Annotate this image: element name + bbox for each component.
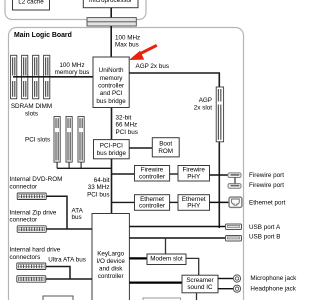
- svg-text:bus bridge: bus bridge: [96, 98, 126, 105]
- svg-text:Headphone jack: Headphone jack: [250, 286, 296, 293]
- wire max bus lower: [110, 26, 112, 57]
- svg-text:32-bit: 32-bit: [116, 114, 132, 121]
- svg-text:controller: controller: [98, 273, 124, 280]
- svg-text:connector: connector: [10, 217, 38, 224]
- internal Zip drive connector icon: [17, 226, 46, 233]
- svg-text:Boot: Boot: [159, 140, 172, 147]
- Firewire port icon A: [228, 173, 241, 178]
- svg-text:UniNorth: UniNorth: [99, 67, 124, 74]
- svg-text:controller: controller: [98, 83, 124, 90]
- wire DVD connector to ATA bus: [46, 196, 67, 229]
- svg-text:AGP 2x bus: AGP 2x bus: [136, 63, 170, 70]
- svg-text:connector: connector: [10, 183, 38, 190]
- 100 MHz Max bus label: [115, 34, 140, 48]
- wire AGP 2x bus: [129, 73, 219, 228]
- svg-text:USB port A: USB port A: [249, 224, 281, 231]
- svg-text:Internal hard drive: Internal hard drive: [10, 246, 61, 253]
- svg-text:sound IC: sound IC: [187, 284, 213, 291]
- headphone jack icon: [233, 285, 240, 292]
- SDRAM DIMM slot 1: [11, 55, 17, 99]
- svg-text:controller: controller: [139, 173, 165, 180]
- svg-text:controller: controller: [139, 203, 165, 210]
- bottom-left box (cut off): [43, 296, 73, 300]
- wire Zip connector to KeyLargo (ATA bus): [46, 228, 92, 230]
- svg-text:Internal Zip drive: Internal Zip drive: [10, 210, 57, 217]
- wire bus to Firewire controller: [112, 173, 135, 175]
- Firewire PHY: [178, 166, 210, 182]
- svg-text:PCI bus: PCI bus: [116, 129, 138, 136]
- PCI slot 1: [54, 117, 60, 163]
- svg-text:Firewire port: Firewire port: [249, 182, 284, 189]
- processor module enclosure: [5, 0, 146, 20]
- svg-text:PCI-PCI: PCI-PCI: [100, 142, 123, 149]
- svg-text:memory: memory: [100, 75, 124, 82]
- 32-bit 66 MHz PCI bus label: [116, 114, 138, 135]
- svg-text:2x slot: 2x slot: [194, 104, 212, 111]
- svg-text:64-bit: 64-bit: [94, 177, 110, 184]
- USB port labels: [249, 224, 281, 241]
- svg-text:and PCI: and PCI: [100, 90, 123, 97]
- 64-bit 33 MHz PCI bus label: [87, 177, 110, 198]
- svg-text:PCI slots: PCI slots: [25, 137, 50, 144]
- svg-text:Modem slot: Modem slot: [150, 256, 183, 263]
- svg-text:100 MHz: 100 MHz: [115, 34, 140, 41]
- Firewire controller: [135, 166, 170, 182]
- internal hard drive connector icon 2: [17, 276, 46, 283]
- svg-text:PCI bus: PCI bus: [87, 191, 109, 198]
- wire 32-bit PCI bus: [111, 108, 113, 140]
- wire 64-bit PCI bus: [111, 159, 113, 214]
- wire Screamer bottom stub: [196, 293, 198, 300]
- PCI slot 2: [66, 117, 72, 163]
- AGP 2x slot: [216, 87, 223, 142]
- svg-text:SDRAM DIMM: SDRAM DIMM: [11, 103, 52, 110]
- wire bridge to Boot ROM: [129, 147, 152, 149]
- Internal DVD-ROM connector label: [10, 176, 63, 191]
- Ethernet port icon: [229, 197, 242, 207]
- svg-text:Main Logic Board: Main Logic Board: [14, 32, 72, 39]
- svg-text:Max bus: Max bus: [115, 42, 139, 49]
- PCI slots stems and bus wire: [57, 162, 81, 168]
- wire controller to Firewire PHY: [170, 173, 178, 175]
- Firewire port icon B: [228, 184, 241, 189]
- Boot ROM: [152, 138, 179, 157]
- USB port A icon: [226, 224, 242, 230]
- wire USB B line to Modem slot: [165, 238, 167, 254]
- svg-text:USB port B: USB port B: [249, 234, 281, 241]
- svg-text:AGP: AGP: [199, 97, 212, 104]
- Internal hard drive connectors label: [10, 246, 61, 261]
- svg-text:bus bridge: bus bridge: [97, 150, 127, 157]
- wire PHY to Ethernet port: [210, 201, 230, 203]
- wire Modem slot to Screamer: [186, 258, 199, 275]
- USB port B icon: [226, 236, 242, 242]
- SDRAM DIMM slot 4: [44, 55, 50, 99]
- SDRAM DIMM slots label: [11, 103, 52, 117]
- wire max bus upper: [110, 8, 112, 18]
- KeyLargo I/O device and disk controller: [92, 214, 129, 300]
- AGP 2x slot label: [194, 97, 212, 111]
- Firewire port labels: [249, 172, 284, 189]
- wire controller to Ethernet PHY: [170, 201, 178, 203]
- svg-text:Internal DVD-ROM: Internal DVD-ROM: [10, 176, 63, 183]
- svg-text:bus: bus: [72, 214, 82, 221]
- svg-text:memory bus: memory bus: [55, 69, 90, 76]
- Modem slot: [147, 254, 186, 265]
- PCI slot 3: [78, 117, 84, 163]
- wire KeyLargo to Screamer (thick): [129, 282, 182, 284]
- wire bus to Ethernet controller: [112, 201, 135, 203]
- Internal Zip drive connector label: [10, 210, 57, 224]
- svg-text:33 MHz: 33 MHz: [88, 184, 110, 191]
- microphone jack icon: [233, 275, 240, 282]
- jack labels: [250, 275, 297, 292]
- wire hard drive 2 to KeyLargo (Ultra ATA): [46, 278, 92, 280]
- svg-text:ROM: ROM: [158, 148, 173, 155]
- wire memory bus: [13, 76, 93, 78]
- svg-text:Ultra ATA bus: Ultra ATA bus: [48, 257, 86, 264]
- svg-text:microprocessor: microprocessor: [89, 0, 132, 4]
- Screamer sound IC: [182, 275, 218, 293]
- PCI-PCI bus bridge: [94, 140, 130, 159]
- processor connector: [87, 18, 136, 26]
- microprocessor: [83, 0, 138, 8]
- wire KeyLargo to USB port A: [129, 226, 225, 228]
- svg-text:Ethernet port: Ethernet port: [249, 200, 286, 207]
- wire Screamer to headphone jack: [218, 288, 233, 290]
- wire between Firewire ports: [234, 178, 236, 184]
- SDRAM DIMM slot 3: [33, 55, 39, 99]
- svg-text:connectors: connectors: [10, 254, 41, 261]
- svg-text:Screamer: Screamer: [186, 277, 213, 284]
- 100 MHz memory bus label: [55, 62, 90, 76]
- svg-text:Firewire port: Firewire port: [249, 172, 284, 179]
- red arrow annotation: [129, 45, 157, 60]
- ATA bus label: [72, 208, 84, 222]
- svg-text:66 MHz: 66 MHz: [116, 122, 138, 129]
- wire PHY to Firewire ports: [210, 174, 229, 176]
- UniNorth memory controller and PCI bus bridge: [93, 57, 129, 108]
- L2 cache: [13, 0, 50, 10]
- Ethernet controller: [135, 195, 170, 211]
- SDRAM DIMM slot 2: [22, 55, 28, 99]
- svg-text:and disk: and disk: [99, 266, 123, 273]
- Ethernet PHY: [178, 195, 210, 211]
- svg-text:PHY: PHY: [187, 203, 201, 210]
- internal DVD-ROM connector icon: [17, 193, 46, 200]
- wire hard drive 1 to Ultra ATA bus: [46, 267, 70, 280]
- svg-text:L2 cache: L2 cache: [18, 0, 44, 5]
- svg-text:I/O device: I/O device: [97, 258, 126, 265]
- wire Screamer to microphone jack: [218, 278, 233, 280]
- wire KeyLargo to Modem slot (thick): [129, 257, 147, 259]
- internal hard drive connector icon 1: [17, 263, 46, 270]
- svg-text:slots: slots: [25, 110, 38, 117]
- bottom-center box (cut off): [143, 298, 181, 300]
- wire KeyLargo to USB port B: [129, 237, 225, 239]
- svg-text:Microphone jack: Microphone jack: [250, 275, 297, 282]
- svg-text:PHY: PHY: [187, 173, 201, 180]
- svg-text:KeyLargo: KeyLargo: [97, 251, 124, 258]
- main logic board enclosure: [9, 28, 244, 300]
